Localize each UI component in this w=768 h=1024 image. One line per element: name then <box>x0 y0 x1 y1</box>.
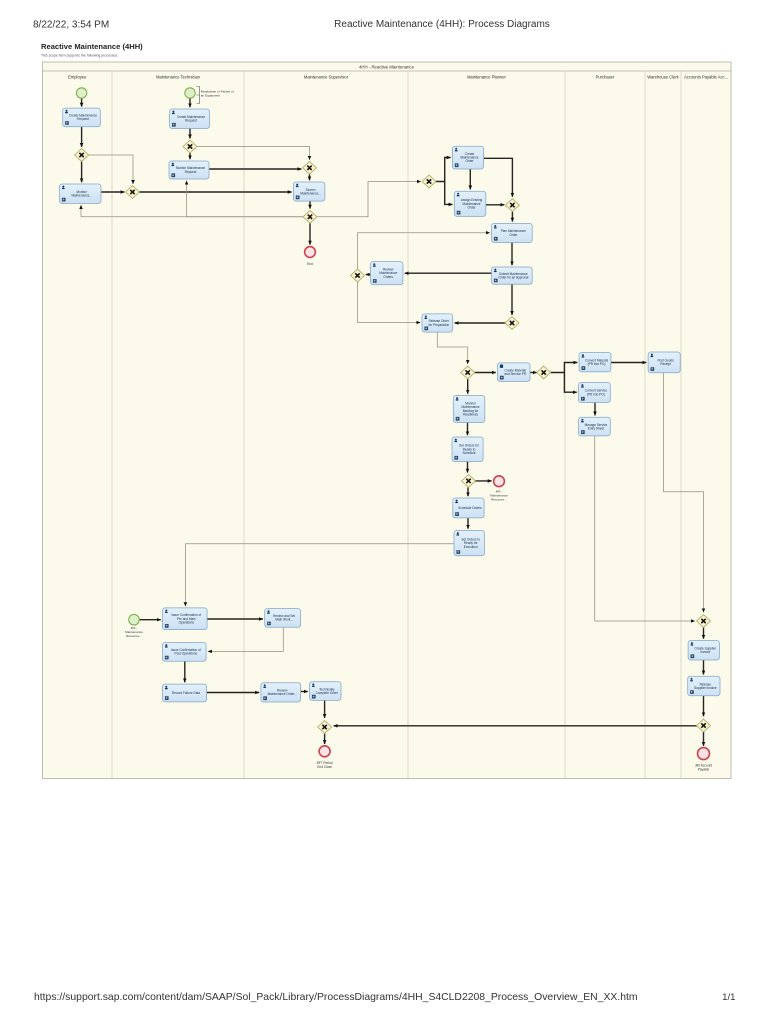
gateway G9 (Planner) <box>461 366 475 379</box>
svg-text:Entry Sheet: Entry Sheet <box>588 426 605 430</box>
wire E1 to T1 <box>81 98 83 106</box>
wire T24 to G11 <box>663 373 703 612</box>
svg-text:Schedule Orders: Schedule Orders <box>458 506 482 510</box>
wire G5 to E3 <box>309 223 311 244</box>
svg-text:Operations: Operations <box>179 620 195 624</box>
task T13: Monitor Maintenance Backlog for Readiness <box>453 396 485 423</box>
gateway G2 (Employee) <box>126 186 140 199</box>
lane boundary Maintenance Supervisor <box>243 71 245 779</box>
wire T25 to T26 <box>594 403 596 416</box>
gateway G15 (Planner) <box>505 199 519 212</box>
svg-text:Order: Order <box>468 205 476 209</box>
start event Breakdown or Failure of an Equipment <box>185 88 195 98</box>
svg-text:Order: Order <box>509 233 517 237</box>
task T25: Convert Service PR into PO <box>579 383 611 403</box>
svg-text:for Preparation: for Preparation <box>428 323 449 327</box>
svg-text:Maintenance...: Maintenance... <box>300 191 321 195</box>
gateway G7 (Supervisor) <box>351 269 365 282</box>
svg-text:Maintenance Supervisor: Maintenance Supervisor <box>304 75 349 80</box>
wire T7 to G15 <box>486 204 505 206</box>
diagram title bar <box>43 70 732 72</box>
wire G5 to T2 feedback <box>81 205 304 217</box>
wire G12 to E7 <box>703 732 705 746</box>
svg-text:an Equipment: an Equipment <box>201 94 220 98</box>
wire T10 to G7 <box>366 274 371 276</box>
svg-text:Maintenance...: Maintenance... <box>71 194 92 198</box>
svg-text:End: End <box>307 262 313 266</box>
task T8: Plan Maintenance Order <box>492 223 533 242</box>
svg-text:Payable: Payable <box>698 767 710 771</box>
lane boundary Maintenance Planner <box>407 71 409 779</box>
wire G6 to T6 <box>436 158 451 182</box>
lane boundary Purchaser <box>564 71 566 779</box>
wire T15 to T16 <box>467 518 469 529</box>
svg-text:Complete Order: Complete Order <box>316 691 338 695</box>
task T3: Create Maintenance Request (Technician) <box>170 109 210 129</box>
task T16: Set Orders to Ready for Execution <box>454 531 484 556</box>
task T24: Post Goods Receipt <box>648 352 680 373</box>
svg-text:4HH - Reactive Maintenance: 4HH - Reactive Maintenance <box>359 64 415 69</box>
wire G5 to T4 feedback <box>187 181 304 217</box>
svg-text:Resource...: Resource... <box>126 634 142 638</box>
task T4: Monitor Maintenance Request (Technician) <box>169 161 209 179</box>
gateway G14 (Planner) <box>462 475 476 488</box>
lane boundary Accounts Payable Acc... <box>680 71 682 779</box>
wire T27 to T28 <box>703 660 705 675</box>
svg-text:(PR into PO): (PR into PO) <box>588 362 606 366</box>
svg-text:Resource...: Resource... <box>491 497 507 501</box>
wire G14 to T15 <box>467 487 469 496</box>
wire G1 to T2 <box>81 162 83 183</box>
wire T4 to G4 <box>209 168 301 170</box>
wire G10 to T25 <box>564 373 576 393</box>
svg-text:Schedule: Schedule <box>462 451 475 455</box>
gateway G10 (Planner) <box>537 366 551 379</box>
wire T13 to T14 <box>467 423 469 436</box>
task T26: Manage Service Entry Sheet <box>579 417 611 436</box>
wire T9 to T10 <box>405 272 492 274</box>
task T7: Assign Existing Maintenance Order <box>454 191 486 216</box>
wire G4 to T5 <box>309 174 311 180</box>
wire E5 to T17 <box>140 619 161 621</box>
svg-text:Employee: Employee <box>68 75 87 80</box>
svg-text:8/22/22, 3:54 PM: 8/22/22, 3:54 PM <box>33 20 109 31</box>
gateway G6 (Planner) <box>422 175 436 188</box>
wire G6 to T7 <box>445 182 453 205</box>
svg-text:Accounts Payable Acc...: Accounts Payable Acc... <box>684 75 728 80</box>
wire T11 to G9 <box>437 332 467 364</box>
task T14: Set Orders for Ready to Schedule <box>452 437 483 462</box>
task T19: Issue Confirmation of Post Operations <box>163 643 207 662</box>
wire G5 to G6 <box>317 182 421 217</box>
task T5: Screen Maintenance (Supervisor) <box>293 182 325 201</box>
wire T3 to G3 <box>189 129 191 139</box>
task T17: Issue Confirmation of Pre and Main Operations <box>163 608 208 630</box>
wire G1 to G2 <box>88 155 133 184</box>
wire G7 to T11 <box>358 282 421 323</box>
wire T9 to G8 <box>511 284 513 315</box>
wire T8 to T9 <box>511 243 513 266</box>
svg-text:(PR into PO): (PR into PO) <box>587 392 605 396</box>
gateway G8 (Planner) <box>505 317 519 330</box>
task T21: Review Maintenance Order <box>261 683 301 702</box>
wire G3 to T4 <box>189 153 191 159</box>
wire T26 to G11 <box>595 436 695 621</box>
wire G10 to T23 <box>550 363 577 373</box>
wire G9 to T12 <box>474 372 496 374</box>
task T23: Convert Material PR into PO <box>579 353 611 372</box>
end event J60 Account Payable <box>698 748 710 760</box>
wire G2 to T5 <box>139 191 292 193</box>
gateway G5 (Supervisor) <box>303 210 317 223</box>
svg-text:Record Failure Data: Record Failure Data <box>172 691 200 695</box>
wire T1 to G1 <box>81 127 83 147</box>
annotation bracket Breakdown or Failure of an Equipment <box>197 87 200 104</box>
wire T22 to G13 <box>324 700 326 718</box>
svg-text:This scope item supports the f: This scope item supports the following p… <box>41 54 118 58</box>
svg-text:Warehouse Clerk: Warehouse Clerk <box>647 75 679 80</box>
wire T12 to G10 <box>530 372 537 374</box>
gateway G3 (Technician) <box>183 140 197 153</box>
svg-text:Purchaser: Purchaser <box>596 75 615 80</box>
wire T17 to T18 <box>207 618 263 620</box>
gateway G4 (Supervisor) <box>303 161 317 174</box>
wire G12 to G13 <box>334 725 697 727</box>
wire T21 to T22 <box>301 691 308 693</box>
task T11: Release Order for Preparation <box>422 314 453 332</box>
svg-text:Request: Request <box>77 117 89 121</box>
end event 4IR Maintenance Resource <box>494 476 505 487</box>
svg-text:Execution: Execution <box>464 545 478 549</box>
wire T19 to T20 <box>184 661 186 682</box>
task T12: Create Material and Service PR <box>498 363 531 382</box>
lane boundary Maintenance Technician <box>111 71 113 779</box>
gateway G11 (Accounts Payable) <box>697 615 711 628</box>
svg-text:Maintenance Planner: Maintenance Planner <box>467 75 506 80</box>
svg-text:https://support.sap.com/conten: https://support.sap.com/content/dam/SAAP… <box>34 992 638 1003</box>
wire G11 to T27 <box>703 628 705 639</box>
task T15: Schedule Orders <box>453 498 484 518</box>
wire T6 to T7 <box>469 169 471 189</box>
lane boundary Warehouse Clerk <box>644 71 646 779</box>
svg-text:Main Work...: Main Work... <box>275 618 293 622</box>
task T28: Release Supplier Invoice <box>688 676 720 696</box>
wire G14 to E4 <box>475 480 492 482</box>
gateway G1 (Employee) <box>75 149 89 162</box>
task T18: Review and Set Main Work <box>265 609 301 628</box>
svg-text:Invoice: Invoice <box>700 650 710 654</box>
start event 4IR Maintenance Resource <box>129 614 140 625</box>
svg-text:Reactive Maintenance (4HH): Pr: Reactive Maintenance (4HH): Process Diag… <box>334 19 550 30</box>
diagram frame <box>43 62 732 779</box>
gateway G12 (Accounts Payable) <box>697 719 711 732</box>
task T6: Create Maintenance Order <box>452 146 483 169</box>
end event End <box>305 247 316 258</box>
wire G7 to T8 <box>358 233 490 269</box>
wire T5 to G5 <box>309 201 311 209</box>
svg-text:Readiness: Readiness <box>463 412 478 416</box>
wire G8 to T11 <box>455 322 506 324</box>
end event BF7 Period End Close <box>319 746 330 757</box>
svg-text:End Close: End Close <box>317 765 332 769</box>
wire G9 to T13 <box>467 379 469 394</box>
svg-text:1/1: 1/1 <box>722 992 735 1003</box>
svg-text:Order for an Approval: Order for an Approval <box>498 275 528 279</box>
task T2: Monitor Maintenance (Employee) <box>60 184 102 203</box>
wire G15 to T8 <box>511 212 513 222</box>
wire T16 to T17 <box>185 544 454 606</box>
svg-text:Receipt: Receipt <box>660 362 671 366</box>
svg-text:Maintenance Order...: Maintenance Order... <box>268 692 297 696</box>
task T9: Submit Maintenance Order for an Approval <box>492 267 533 284</box>
svg-text:Maintenance Technician: Maintenance Technician <box>156 75 201 80</box>
svg-text:Post Operations: Post Operations <box>175 652 198 656</box>
svg-text:Orders: Orders <box>383 275 393 279</box>
start event (Employee) <box>76 88 86 98</box>
wire T14 to G14 <box>467 462 469 473</box>
wire T20 to T21 <box>207 692 260 694</box>
task T27: Create Supplier Invoice <box>688 641 719 661</box>
wire T28 to G12 <box>703 696 705 716</box>
svg-text:and Service PR: and Service PR <box>504 372 527 376</box>
wire G13 to E6 <box>324 734 326 744</box>
svg-text:Request: Request <box>185 119 197 123</box>
wire T23 to T24 <box>611 362 646 364</box>
svg-text:Reactive Maintenance (4HH): Reactive Maintenance (4HH) <box>41 42 143 51</box>
svg-text:Supplier Invoice: Supplier Invoice <box>694 686 717 690</box>
wire T2 to G2 <box>101 191 124 193</box>
svg-text:Request: Request <box>185 170 197 174</box>
wire T6 to G15 <box>484 158 513 197</box>
wire E2 to T3 <box>189 98 191 107</box>
wire G3 to G4 <box>197 147 310 160</box>
task T10: Review Maintenance Orders <box>371 262 403 285</box>
task T1: Create Maintenance Request (Employee) <box>63 108 101 127</box>
task T22: Technically Complete Order <box>310 682 342 701</box>
gateway G13 (Supervisor) <box>318 721 332 734</box>
wire T18 to T19 <box>208 627 283 651</box>
svg-text:Order: Order <box>465 159 473 163</box>
task T20: Record Failure Data <box>163 684 207 702</box>
